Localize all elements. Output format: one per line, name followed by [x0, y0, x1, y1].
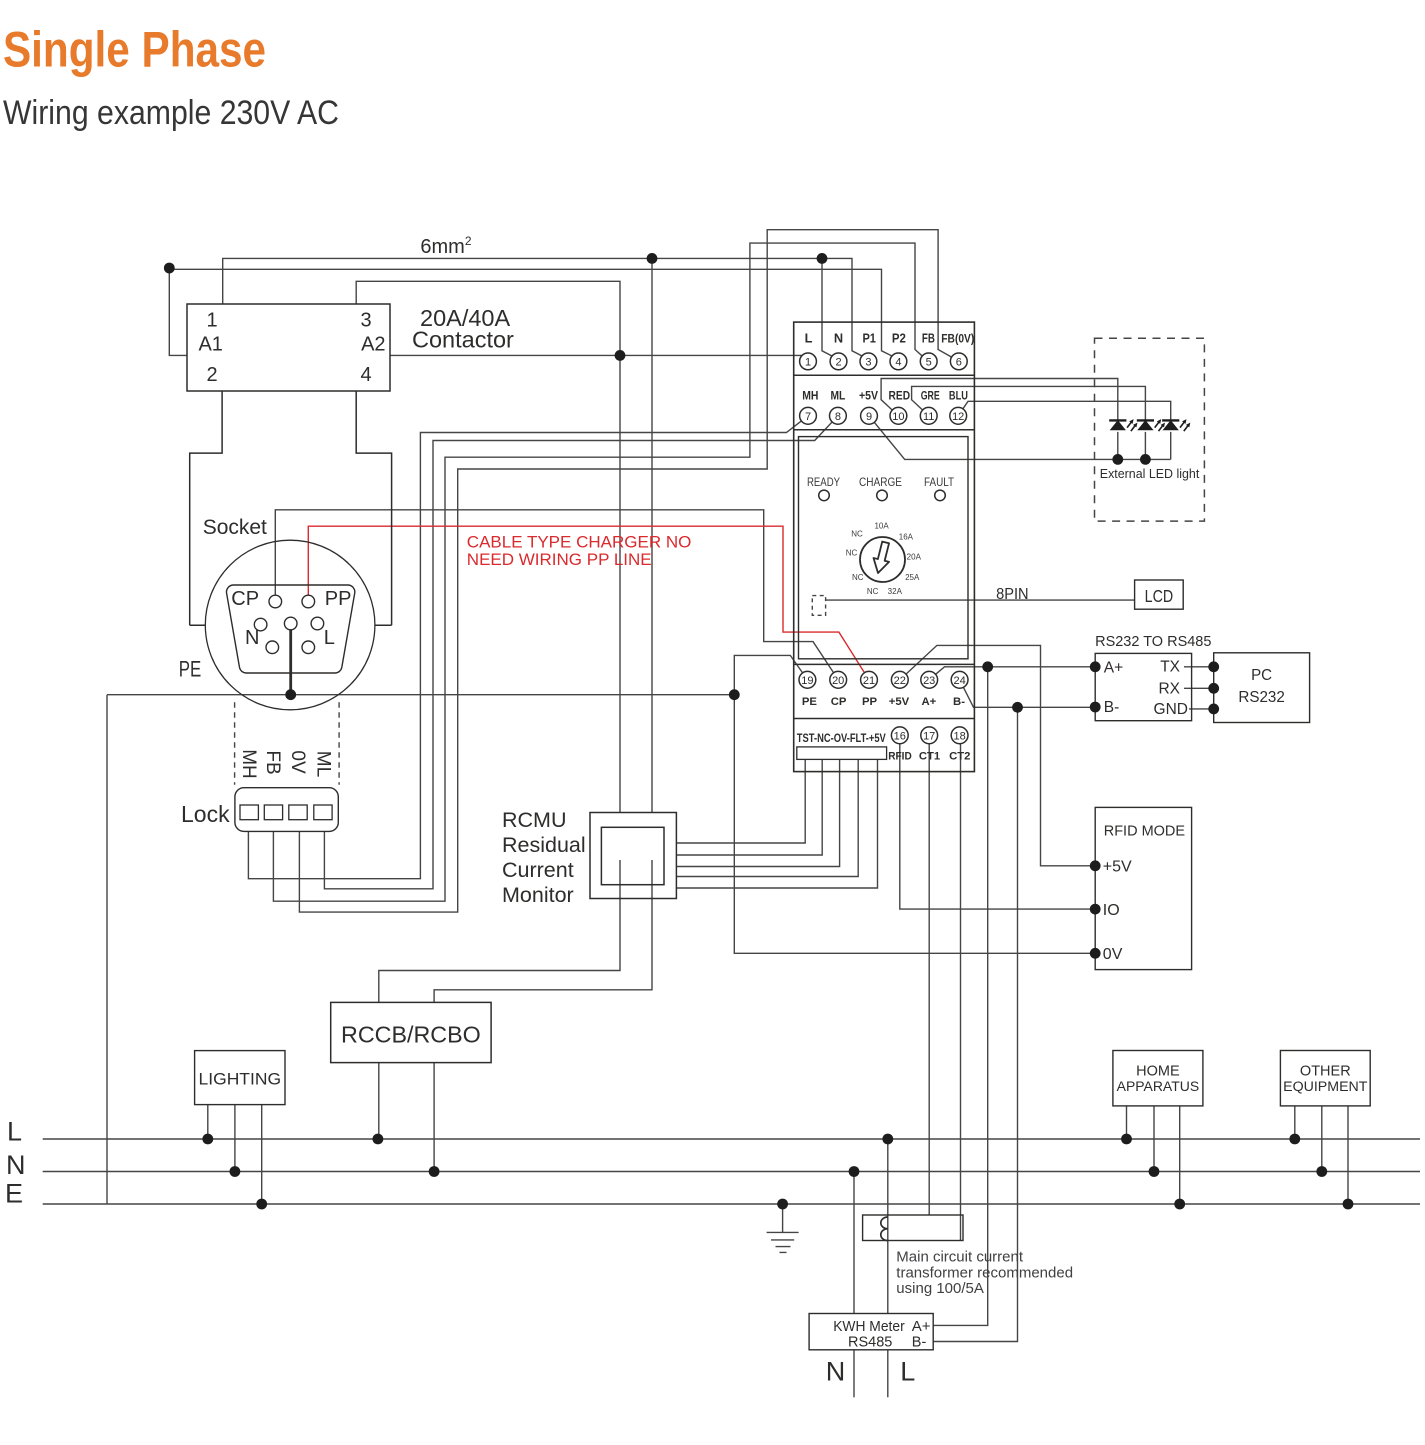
- svg-text:PE: PE: [802, 696, 818, 708]
- svg-text:RED: RED: [889, 389, 911, 403]
- svg-text:NC: NC: [852, 573, 864, 582]
- svg-text:A2: A2: [361, 334, 385, 356]
- svg-text:A+: A+: [912, 1318, 931, 1335]
- svg-text:N: N: [826, 1357, 846, 1387]
- svg-text:Residual: Residual: [502, 833, 586, 857]
- svg-text:RS485: RS485: [848, 1335, 892, 1351]
- svg-text:LIGHTING: LIGHTING: [199, 1071, 282, 1089]
- svg-text:23: 23: [923, 675, 935, 687]
- svg-text:IO: IO: [1103, 902, 1120, 919]
- svg-text:N: N: [6, 1150, 26, 1180]
- svg-text:transformer recommended: transformer recommended: [896, 1264, 1073, 1281]
- svg-text:19: 19: [801, 675, 813, 687]
- svg-text:FB: FB: [922, 330, 935, 345]
- svg-text:RS232: RS232: [1238, 689, 1285, 706]
- svg-text:READY: READY: [807, 475, 840, 489]
- svg-text:Socket: Socket: [203, 516, 267, 539]
- svg-text:LCD: LCD: [1145, 586, 1174, 606]
- svg-text:CT1: CT1: [919, 751, 940, 763]
- svg-text:TST-NC-OV-FLT-+5V: TST-NC-OV-FLT-+5V: [797, 731, 886, 745]
- svg-text:CABLE TYPE CHARGER NO: CABLE TYPE CHARGER NO: [467, 533, 692, 552]
- svg-text:4: 4: [895, 357, 901, 369]
- svg-text:RFID: RFID: [888, 751, 912, 763]
- svg-text:RCMU: RCMU: [502, 808, 567, 832]
- svg-text:7: 7: [805, 411, 811, 423]
- svg-text:NC: NC: [867, 587, 879, 596]
- svg-text:L: L: [805, 330, 813, 345]
- svg-text:20A: 20A: [907, 553, 922, 562]
- svg-text:ML: ML: [312, 751, 333, 777]
- svg-text:Lock: Lock: [181, 801, 230, 827]
- svg-text:11: 11: [923, 411, 934, 423]
- svg-text:L: L: [324, 627, 335, 649]
- svg-text:3: 3: [360, 310, 371, 332]
- svg-text:2: 2: [835, 357, 841, 369]
- svg-text:B-: B-: [912, 1335, 927, 1351]
- svg-text:PC: PC: [1251, 667, 1272, 684]
- svg-text:5: 5: [926, 357, 932, 369]
- svg-text:BLU: BLU: [949, 389, 968, 403]
- svg-text:9: 9: [866, 411, 872, 423]
- svg-text:CP: CP: [831, 696, 847, 708]
- svg-text:21: 21: [863, 675, 875, 687]
- svg-text:L: L: [7, 1117, 22, 1147]
- svg-text:CP: CP: [231, 588, 259, 610]
- svg-text:PP: PP: [862, 696, 878, 708]
- svg-text:20: 20: [832, 675, 844, 687]
- svg-text:A+: A+: [922, 696, 937, 708]
- svg-text:24: 24: [953, 675, 965, 687]
- svg-text:NC: NC: [846, 549, 858, 558]
- svg-text:GRE: GRE: [921, 389, 940, 403]
- svg-text:Contactor: Contactor: [412, 327, 514, 353]
- svg-text:RS232 TO RS485: RS232 TO RS485: [1095, 634, 1211, 650]
- svg-text:RX: RX: [1158, 681, 1180, 698]
- svg-text:FB(0V): FB(0V): [941, 331, 974, 345]
- svg-text:E: E: [5, 1179, 23, 1209]
- svg-text:6: 6: [956, 357, 962, 369]
- svg-text:PE: PE: [179, 657, 202, 682]
- svg-text:CHARGE: CHARGE: [859, 475, 902, 489]
- svg-text:1: 1: [805, 357, 811, 369]
- svg-text:32A: 32A: [888, 587, 903, 596]
- svg-text:N: N: [834, 330, 843, 345]
- svg-text:FAULT: FAULT: [924, 475, 955, 489]
- svg-text:B-: B-: [1104, 699, 1120, 716]
- svg-text:KWH Meter: KWH Meter: [833, 1318, 905, 1335]
- svg-text:3: 3: [865, 357, 871, 369]
- svg-text:A1: A1: [198, 334, 222, 356]
- svg-text:Single Phase: Single Phase: [3, 22, 266, 78]
- svg-text:8: 8: [835, 411, 841, 423]
- svg-text:+5V: +5V: [889, 696, 910, 708]
- svg-text:1: 1: [206, 310, 217, 332]
- svg-text:PP: PP: [325, 588, 352, 610]
- svg-text:6mm2: 6mm2: [420, 234, 471, 258]
- svg-text:Wiring example 230V AC: Wiring example 230V AC: [3, 94, 339, 132]
- svg-text:25A: 25A: [905, 573, 920, 582]
- svg-text:Current: Current: [502, 858, 574, 882]
- svg-text:B-: B-: [953, 696, 965, 708]
- svg-text:10A: 10A: [874, 522, 889, 531]
- svg-text:P2: P2: [892, 330, 906, 345]
- svg-text:TX: TX: [1160, 659, 1180, 676]
- svg-text:L: L: [900, 1357, 915, 1387]
- svg-text:External LED light: External LED light: [1100, 466, 1200, 481]
- svg-text:16A: 16A: [899, 533, 914, 542]
- svg-text:Main circuit current: Main circuit current: [896, 1249, 1024, 1266]
- svg-text:12: 12: [952, 411, 964, 423]
- svg-text:+5V: +5V: [1103, 858, 1132, 875]
- svg-text:MH: MH: [238, 749, 259, 779]
- svg-text:4: 4: [360, 364, 371, 386]
- svg-text:EQUIPMENT: EQUIPMENT: [1283, 1079, 1368, 1095]
- svg-text:10: 10: [892, 411, 904, 423]
- svg-text:NEED WIRING PP LINE: NEED WIRING PP LINE: [467, 550, 652, 569]
- svg-text:RFID MODE: RFID MODE: [1104, 824, 1186, 840]
- svg-text:ML: ML: [831, 389, 846, 403]
- svg-text:NC: NC: [851, 530, 863, 539]
- svg-text:22: 22: [894, 675, 906, 687]
- svg-text:A+: A+: [1104, 659, 1123, 676]
- svg-text:MH: MH: [802, 389, 818, 403]
- svg-text:using 100/5A: using 100/5A: [896, 1280, 984, 1297]
- svg-text:2: 2: [206, 364, 217, 386]
- svg-text:0V: 0V: [287, 750, 308, 774]
- svg-text:0V: 0V: [1103, 946, 1123, 963]
- svg-text:APPARATUS: APPARATUS: [1117, 1078, 1200, 1094]
- svg-text:GND: GND: [1154, 701, 1188, 718]
- svg-text:17: 17: [923, 731, 935, 743]
- svg-text:18: 18: [953, 731, 965, 743]
- svg-text:CT2: CT2: [949, 751, 970, 763]
- svg-text:N: N: [245, 627, 259, 649]
- svg-text:FB: FB: [262, 750, 283, 774]
- svg-text:OTHER: OTHER: [1300, 1064, 1351, 1080]
- svg-text:Monitor: Monitor: [502, 883, 574, 907]
- svg-text:RCCB/RCBO: RCCB/RCBO: [341, 1022, 481, 1048]
- svg-text:16: 16: [894, 731, 906, 743]
- svg-text:8PIN: 8PIN: [996, 586, 1029, 603]
- svg-text:+5V: +5V: [859, 389, 878, 403]
- svg-text:P1: P1: [862, 330, 876, 345]
